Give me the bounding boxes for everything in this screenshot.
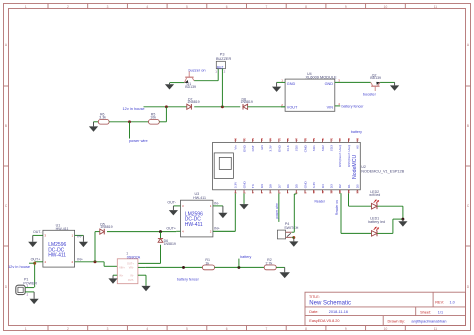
svg-text:OUT-: OUT-: [33, 230, 42, 234]
svg-text:NODEMCU_V1_ESP12B: NODEMCU_V1_ESP12B: [361, 169, 404, 173]
svg-text:battery: battery: [351, 130, 362, 134]
svg-text:SD2: SD2: [321, 145, 325, 151]
svg-text:booster: booster: [363, 91, 377, 96]
svg-text:7: 7: [265, 327, 267, 331]
svg-text:4: 4: [146, 327, 148, 331]
svg-text:7: 7: [265, 5, 267, 9]
svg-text:3.3k: 3.3k: [99, 116, 106, 120]
svg-text:IN+: IN+: [214, 227, 220, 231]
svg-text:XL6009 MODULE: XL6009 MODULE: [306, 75, 338, 80]
svg-text:battery led: battery led: [368, 220, 385, 224]
svg-text:SWITCH: SWITCH: [284, 226, 299, 230]
svg-text:1.0: 1.0: [450, 300, 455, 304]
svg-text:NodeMCU: NodeMCU: [352, 155, 358, 179]
svg-text:BD139: BD139: [185, 85, 196, 89]
svg-text:6: 6: [226, 327, 228, 331]
svg-text:GND: GND: [287, 82, 296, 86]
svg-text:16: 16: [234, 137, 238, 141]
svg-text:power wire: power wire: [275, 203, 279, 219]
svg-text:30: 30: [321, 137, 325, 141]
svg-text:SD1: SD1: [312, 145, 316, 151]
svg-text:RSV(Don't Use): RSV(Don't Use): [347, 145, 351, 167]
svg-text:10: 10: [384, 327, 388, 331]
svg-text:24: 24: [269, 137, 273, 141]
svg-text:GND: GND: [242, 144, 246, 152]
svg-text:GND: GND: [277, 144, 281, 152]
svg-text:10: 10: [384, 5, 388, 9]
svg-text:EasyEDA V5.8.20: EasyEDA V5.8.20: [309, 319, 339, 323]
svg-text:15: 15: [356, 190, 360, 194]
svg-text:14: 14: [347, 190, 351, 194]
svg-text:1N5819: 1N5819: [241, 100, 253, 104]
svg-text:6: 6: [226, 5, 228, 9]
svg-text:2: 2: [67, 327, 69, 331]
svg-text:4: 4: [146, 5, 148, 9]
svg-text:Sheet:: Sheet:: [420, 311, 431, 315]
svg-text:RSV(Don't Use): RSV(Don't Use): [338, 145, 342, 167]
svg-text:3: 3: [107, 327, 109, 331]
svg-text:Vin: Vin: [234, 145, 238, 150]
svg-text:anjithpadmanabhan: anjithpadmanabhan: [411, 318, 446, 323]
svg-text:GND: GND: [325, 82, 334, 86]
svg-text:D7: D7: [277, 184, 281, 188]
svg-text:D0: D0: [356, 184, 360, 188]
svg-text:GND: GND: [303, 181, 307, 189]
svg-text:B: B: [5, 124, 7, 128]
svg-text:A0: A0: [356, 145, 360, 149]
svg-text:D5: D5: [295, 184, 299, 188]
svg-text:27: 27: [295, 137, 299, 141]
svg-text:26: 26: [286, 137, 290, 141]
svg-text:19: 19: [356, 137, 360, 141]
svg-text:battery fencer: battery fencer: [342, 105, 365, 109]
svg-text:22: 22: [260, 137, 264, 141]
svg-text:1: 1: [25, 327, 27, 331]
svg-text:buzzer on: buzzer on: [189, 68, 206, 73]
svg-text:5: 5: [186, 327, 188, 331]
svg-text:9: 9: [345, 327, 347, 331]
svg-text:2: 2: [67, 5, 69, 9]
svg-text:1N5819: 1N5819: [187, 100, 199, 104]
svg-text:29: 29: [312, 137, 316, 141]
svg-text:12v in house: 12v in house: [123, 106, 145, 111]
svg-text:10: 10: [312, 190, 316, 194]
svg-text:13: 13: [338, 190, 342, 194]
svg-text:HW-411: HW-411: [48, 252, 66, 258]
svg-text:POWER: POWER: [23, 282, 37, 286]
svg-text:SD3: SD3: [330, 145, 334, 151]
svg-text:SD0: SD0: [295, 145, 299, 151]
svg-text:IN-: IN-: [214, 201, 220, 205]
svg-text:3: 3: [107, 5, 109, 9]
svg-text:Drawn By:: Drawn By:: [388, 319, 406, 323]
svg-text:0S802A: 0S802A: [127, 255, 141, 259]
svg-text:1k: 1k: [205, 261, 209, 265]
svg-text:8: 8: [305, 327, 307, 331]
svg-text:power wire: power wire: [129, 138, 148, 143]
svg-text:BUZZER: BUZZER: [216, 57, 231, 61]
svg-text:HW-411: HW-411: [193, 196, 206, 200]
svg-text:IN+: IN+: [119, 275, 124, 278]
svg-text:OUT-: OUT-: [167, 200, 176, 204]
svg-text:TITLE:: TITLE:: [309, 295, 320, 299]
svg-text:12v in house: 12v in house: [8, 264, 30, 269]
svg-text:9: 9: [345, 5, 347, 9]
svg-text:3.3V: 3.3V: [312, 181, 316, 188]
svg-text:D3: D3: [330, 184, 334, 188]
svg-text:VOUT: VOUT: [287, 105, 298, 109]
svg-text:D2: D2: [338, 184, 342, 188]
svg-text:CMD: CMD: [303, 144, 307, 152]
svg-text:D8: D8: [269, 184, 273, 188]
svg-text:11: 11: [434, 327, 438, 331]
svg-text:CLK: CLK: [286, 144, 290, 151]
svg-text:battery fencer: battery fencer: [177, 278, 200, 282]
svg-text:battery: battery: [240, 255, 251, 259]
svg-text:10k: 10k: [150, 116, 156, 120]
svg-text:28: 28: [303, 137, 307, 141]
svg-text:Reader on: Reader on: [335, 200, 339, 215]
svg-text:REV:: REV:: [435, 300, 444, 304]
svg-text:2.7k: 2.7k: [266, 261, 273, 265]
svg-text:1N5819: 1N5819: [164, 242, 176, 246]
svg-text:OUT+: OUT+: [127, 263, 134, 266]
svg-text:25: 25: [277, 137, 281, 141]
svg-text:OUT+: OUT+: [166, 227, 176, 231]
svg-text:D4: D4: [321, 184, 325, 188]
svg-text:TX: TX: [251, 184, 255, 188]
svg-text:11: 11: [321, 190, 325, 193]
svg-text:IN-: IN-: [77, 235, 83, 239]
svg-text:wifi led: wifi led: [369, 193, 380, 197]
svg-text:VIN+: VIN+: [119, 267, 125, 270]
svg-text:21: 21: [251, 137, 255, 141]
svg-text:BD139: BD139: [370, 76, 381, 80]
svg-text:P3: P3: [220, 53, 225, 57]
svg-text:2018-11-16: 2018-11-16: [329, 310, 348, 314]
svg-text:B: B: [467, 124, 469, 128]
svg-text:RST: RST: [251, 145, 255, 151]
svg-text:17: 17: [338, 137, 342, 141]
svg-text:OUT-: OUT-: [128, 279, 134, 282]
svg-text:New Schematic: New Schematic: [309, 300, 351, 306]
svg-text:18: 18: [347, 137, 351, 141]
svg-text:12: 12: [330, 190, 334, 194]
svg-text:D6: D6: [286, 184, 290, 188]
svg-text:20: 20: [242, 137, 246, 141]
svg-text:31: 31: [330, 137, 334, 141]
svg-text:VIN-: VIN-: [129, 267, 134, 270]
svg-text:IN+: IN+: [77, 257, 83, 261]
svg-text:Date:: Date:: [309, 310, 318, 314]
svg-text:5: 5: [186, 5, 188, 9]
svg-text:11: 11: [434, 5, 438, 9]
svg-text:GND: GND: [242, 181, 246, 189]
svg-text:HW-411: HW-411: [56, 227, 69, 231]
svg-text:VIN: VIN: [327, 105, 334, 109]
svg-text:1: 1: [25, 5, 27, 9]
svg-text:IN-: IN-: [130, 275, 134, 278]
svg-text:Reader: Reader: [315, 199, 326, 203]
svg-text:1/1: 1/1: [438, 311, 443, 315]
svg-text:1N5819: 1N5819: [100, 225, 112, 229]
svg-text:HW-411: HW-411: [185, 222, 203, 228]
svg-text:8: 8: [305, 5, 307, 9]
svg-text:3.3V: 3.3V: [234, 181, 238, 188]
svg-text:EN: EN: [260, 145, 264, 149]
svg-text:RX: RX: [260, 184, 264, 188]
svg-text:D1: D1: [347, 184, 351, 188]
svg-text:3.3V: 3.3V: [269, 144, 273, 151]
svg-text:OUT+: OUT+: [31, 257, 41, 261]
